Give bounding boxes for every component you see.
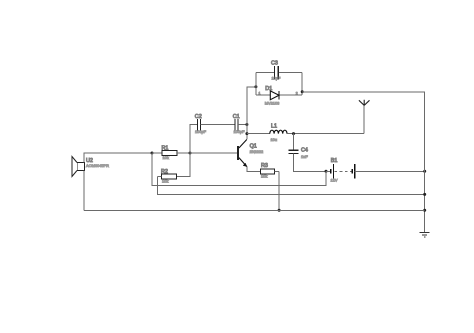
- svg-text:R2: R2: [161, 169, 168, 175]
- node A junction (R1 left / mic / supply branch): [151, 152, 154, 155]
- wire: battery node down and left to supply rail: [152, 153, 326, 185]
- wire: node B up to coupling caps: [190, 125, 197, 154]
- svg-text:10k: 10k: [261, 174, 267, 179]
- capacitor C1: [235, 119, 247, 131]
- junction: R2 rail / column: [423, 193, 426, 196]
- resistor R2: [158, 174, 177, 179]
- battery B1: [326, 164, 425, 179]
- svg-text:1: 1: [259, 92, 261, 96]
- wire: U2 bottom terminal down to ground rail: [83, 171, 85, 211]
- ground: [420, 232, 430, 237]
- svg-text:10u: 10u: [271, 137, 278, 142]
- svg-text:1uF: 1uF: [301, 154, 308, 159]
- wire: ground rail: [84, 209, 425, 211]
- wire: varactor block top branch: [256, 71, 302, 73]
- svg-text:C4: C4: [301, 148, 308, 154]
- speaker/mic U2: [72, 157, 85, 177]
- junction: varactor block input: [254, 85, 257, 88]
- wire: U2 top terminal up and right to node A: [84, 153, 152, 163]
- svg-text:2N2222: 2N2222: [250, 149, 264, 154]
- svg-text:B1: B1: [331, 158, 338, 164]
- svg-text:MV2108: MV2108: [265, 101, 280, 106]
- capacitor C2: [197, 119, 234, 131]
- wire: varactor output to ground column: [302, 92, 425, 233]
- svg-text:100pF: 100pF: [195, 129, 207, 134]
- junction: battery minus to ground column: [423, 170, 426, 173]
- diode D1: [270, 91, 279, 100]
- node B junction (base node): [189, 152, 192, 155]
- svg-text:12V: 12V: [331, 178, 338, 183]
- wire: node B down to R2 right lead: [177, 153, 191, 176]
- wire: collector column up to varactor block: [247, 87, 256, 139]
- transistor Q1: [238, 139, 247, 166]
- svg-text:10k: 10k: [163, 155, 169, 160]
- wire: varactor block right vertical: [301, 72, 303, 95]
- svg-text:L1: L1: [271, 123, 277, 129]
- svg-text:10pF: 10pF: [272, 76, 281, 81]
- antenna: [359, 100, 370, 134]
- wire: R2 left lead down and right to ground-side rail: [158, 176, 425, 194]
- junction: varactor block output: [301, 90, 304, 93]
- junction: collector / tank node: [245, 132, 248, 135]
- resistor R1: [152, 150, 190, 155]
- svg-text:R1: R1: [162, 145, 169, 151]
- svg-text:R3: R3: [261, 163, 268, 169]
- svg-text:C3: C3: [271, 61, 278, 67]
- wire: emitter down and right to R3: [247, 167, 261, 172]
- svg-text:C2: C2: [195, 114, 202, 120]
- svg-text:2: 2: [296, 92, 298, 96]
- junction: ground rail / column: [423, 209, 426, 212]
- inductor L1: [247, 130, 364, 133]
- junction: tank node at C4: [292, 132, 295, 135]
- junction: feedback caps to collector column: [245, 123, 248, 126]
- capacitor C3: [275, 66, 279, 79]
- svg-text:AOM6045PR: AOM6045PR: [86, 163, 109, 168]
- junction: R3 to ground rail: [278, 209, 281, 212]
- resistor R3: [261, 169, 280, 174]
- svg-text:D1: D1: [265, 86, 272, 92]
- svg-text:100pF: 100pF: [234, 129, 246, 134]
- capacitor C4: [289, 134, 327, 172]
- wire: R3 right lead down to ground rail: [278, 171, 280, 210]
- svg-text:10k: 10k: [162, 178, 168, 183]
- svg-text:C1: C1: [233, 114, 240, 120]
- wire: varactor block left vertical: [255, 72, 257, 95]
- wire: varactor block bottom branch: [256, 94, 302, 96]
- wire: base wire node B to Q1 base: [190, 152, 237, 154]
- junction: battery plus node: [325, 170, 328, 173]
